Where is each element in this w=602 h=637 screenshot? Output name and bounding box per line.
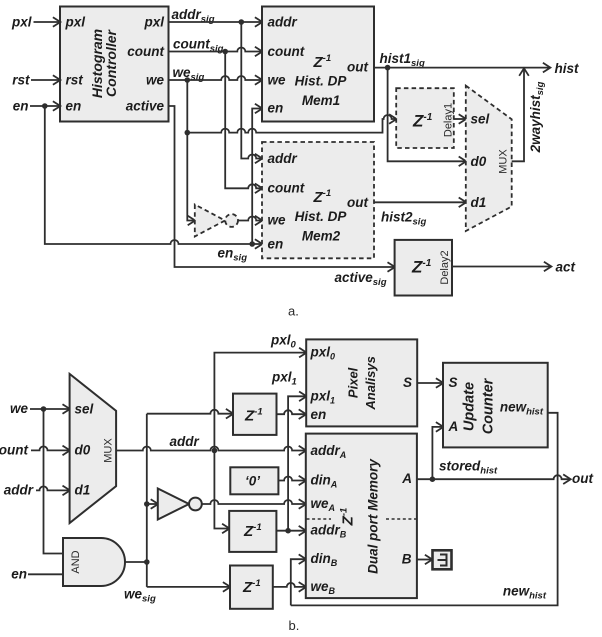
mux U6 MUX bbox=[70, 374, 117, 523]
wire we to Delay1 bbox=[187, 115, 396, 133]
svg-text:addr: addr bbox=[268, 151, 298, 166]
block Delay2 Z-1 bbox=[395, 240, 452, 296]
svg-text:activesig: activesig bbox=[334, 270, 386, 288]
svg-text:b.: b. bbox=[289, 618, 300, 633]
node stored_hist junction bbox=[430, 476, 436, 482]
wire new_hist feedback bbox=[291, 413, 558, 606]
wire en input bbox=[11, 566, 63, 581]
wire addr to middle Z-1 bbox=[214, 451, 229, 529]
svg-text:we: we bbox=[10, 401, 29, 416]
wire AND output we_sig bbox=[125, 561, 147, 563]
svg-text:d1: d1 bbox=[471, 195, 487, 210]
svg-text:Controller: Controller bbox=[103, 29, 119, 97]
wire inverter out to we_A bbox=[202, 500, 306, 504]
wire stored_hist to out bbox=[417, 459, 594, 487]
wire stored_hist to Update Counter A bbox=[432, 427, 443, 479]
svg-text:MUX: MUX bbox=[498, 149, 510, 174]
svg-text:en: en bbox=[268, 101, 284, 116]
wire hist1_sig to hist bbox=[374, 51, 579, 76]
svg-text:we: we bbox=[268, 73, 287, 88]
svg-text:‘0’: ‘0’ bbox=[245, 474, 260, 489]
terminator B port bbox=[417, 550, 452, 569]
svg-text:addr: addr bbox=[4, 483, 34, 498]
inverter U2 (dashed) bbox=[195, 205, 238, 237]
svg-text:out: out bbox=[347, 60, 368, 75]
wire middle Z-1 out to addr_B bbox=[276, 530, 305, 532]
wire lower Z-1 out to we_B bbox=[273, 583, 306, 587]
wire new_hist riser to din_B bbox=[291, 559, 306, 605]
block U1 Histogram Controller bbox=[60, 7, 169, 122]
svg-text:sel: sel bbox=[471, 112, 490, 127]
node count_sig junction bbox=[222, 49, 228, 55]
wire addr from MUX to addr_A bbox=[116, 434, 306, 451]
svg-text:active: active bbox=[126, 99, 165, 114]
svg-text:hist2sig: hist2sig bbox=[381, 210, 426, 228]
block U12 lower Z-1 bbox=[230, 566, 273, 609]
svg-text:pxl: pxl bbox=[143, 15, 164, 30]
wire Delay1 out to MUX sel bbox=[454, 118, 466, 120]
block U8 upper Z-1 bbox=[233, 394, 277, 435]
wire count branch to Mem2 count bbox=[225, 52, 262, 189]
svg-text:out: out bbox=[572, 471, 593, 486]
wire addr input bbox=[4, 483, 70, 498]
wire hist1 branch to MUX d0 bbox=[388, 68, 466, 162]
svg-text:Mem1: Mem1 bbox=[302, 93, 340, 108]
svg-text:Mem2: Mem2 bbox=[302, 229, 341, 244]
svg-text:en: en bbox=[11, 566, 27, 581]
svg-text:pxl: pxl bbox=[11, 15, 32, 30]
wire en_sig branch to Mem2 en bbox=[45, 106, 262, 244]
svg-text:addr: addr bbox=[170, 434, 200, 449]
svg-text:S: S bbox=[449, 375, 458, 390]
svg-text:Hist. DP: Hist. DP bbox=[295, 209, 348, 224]
block U3 Hist. DP Mem1 bbox=[262, 7, 374, 122]
svg-text:pxl1: pxl1 bbox=[271, 370, 297, 388]
node addr_sig junction bbox=[239, 19, 245, 25]
svg-text:A: A bbox=[401, 471, 412, 486]
wire '0' to din_A bbox=[278, 477, 305, 481]
svg-text:S: S bbox=[403, 375, 412, 390]
svg-text:we: we bbox=[268, 213, 287, 228]
node we delay junction bbox=[185, 130, 191, 136]
block U15 Update Counter bbox=[443, 363, 548, 448]
gate U7 AND bbox=[63, 538, 125, 586]
svg-text:out: out bbox=[347, 195, 368, 210]
node we junction bbox=[41, 406, 47, 412]
svg-text:Dual port Memory: Dual port Memory bbox=[366, 458, 381, 574]
wire we input bbox=[10, 401, 70, 416]
mux U5 MUX (dashed) bbox=[466, 86, 512, 231]
svg-text:d0: d0 bbox=[75, 443, 91, 458]
svg-text:rst: rst bbox=[12, 73, 30, 88]
svg-text:ensig: ensig bbox=[218, 246, 248, 264]
svg-text:we: we bbox=[146, 73, 165, 88]
block U11 middle Z-1 bbox=[229, 511, 276, 552]
svg-text:Update: Update bbox=[462, 382, 478, 431]
wire we branch to AND bbox=[44, 409, 64, 554]
wire count_sig bbox=[169, 37, 263, 55]
block U14 Dual port Memory bbox=[306, 434, 417, 598]
svg-text:rst: rst bbox=[66, 73, 84, 88]
svg-text:MUX: MUX bbox=[103, 438, 115, 463]
wire pxl input bbox=[11, 15, 60, 30]
svg-text:wesig: wesig bbox=[124, 587, 156, 605]
wire MUX out 2wayhist_sig bbox=[512, 69, 524, 162]
svg-text:en: en bbox=[13, 99, 29, 114]
wire hist2_sig to MUX d1 bbox=[374, 202, 466, 227]
wire inverter output to Mem2 we bbox=[238, 216, 262, 220]
DIAGRAM-A bbox=[11, 7, 579, 319]
svg-text:en: en bbox=[311, 407, 327, 422]
svg-text:Hist. DP: Hist. DP bbox=[295, 74, 348, 89]
block Delay1 Z-1 (dashed) bbox=[396, 88, 454, 148]
svg-text:Analisys: Analisys bbox=[363, 356, 378, 410]
node en junction bbox=[42, 103, 48, 109]
wire active to Delay2 bbox=[169, 106, 395, 288]
svg-text:newhist: newhist bbox=[503, 584, 547, 602]
svg-text:A: A bbox=[448, 419, 459, 434]
svg-text:en: en bbox=[66, 99, 82, 114]
svg-text:Delay1: Delay1 bbox=[443, 103, 455, 137]
svg-text:AND: AND bbox=[70, 550, 82, 573]
wire en input bbox=[13, 99, 60, 114]
svg-text:d0: d0 bbox=[471, 154, 487, 169]
wire count input bbox=[0, 443, 70, 458]
svg-text:storedhist: storedhist bbox=[439, 459, 498, 477]
wire rst input bbox=[12, 73, 60, 88]
wire we_sig vertical bbox=[146, 414, 148, 587]
node addr_B junction bbox=[285, 528, 291, 534]
node we_sig AND junction bbox=[144, 559, 150, 565]
svg-text:hist: hist bbox=[555, 61, 580, 76]
wire addr branch to Mem2 addr bbox=[241, 22, 262, 159]
wire we_sig bbox=[169, 65, 263, 83]
wire we branch to inverter bbox=[187, 80, 195, 221]
block U13 Pixel Analisys bbox=[306, 339, 417, 426]
wire Delay2 out to act bbox=[452, 260, 576, 275]
svg-text:pxl0: pxl0 bbox=[270, 333, 297, 351]
svg-text:Delay2: Delay2 bbox=[439, 250, 451, 284]
svg-text:en: en bbox=[268, 237, 284, 252]
wire to inverter bbox=[147, 503, 158, 505]
svg-text:count: count bbox=[0, 443, 28, 458]
wire we_sig to upper Z-1 bbox=[147, 410, 233, 414]
wire addr_sig bbox=[169, 7, 263, 25]
node we_sig junction bbox=[185, 77, 191, 83]
svg-text:sel: sel bbox=[75, 401, 94, 416]
node inverter input junction bbox=[144, 501, 150, 507]
wire en_sig up to Mem1 en bbox=[252, 109, 262, 245]
svg-text:2wayhistsig: 2wayhistsig bbox=[528, 81, 546, 153]
node addr junction bbox=[212, 448, 218, 454]
node en_sig junction bbox=[249, 241, 255, 247]
svg-text:a.: a. bbox=[288, 304, 299, 319]
svg-text:pxl: pxl bbox=[65, 15, 86, 30]
svg-text:Pixel: Pixel bbox=[346, 367, 361, 398]
svg-text:count: count bbox=[268, 44, 305, 59]
svg-text:count: count bbox=[268, 181, 305, 196]
inverter U10 bbox=[158, 489, 202, 520]
block U4 Hist. DP Mem2 (dashed) bbox=[262, 142, 374, 258]
svg-text:B: B bbox=[402, 552, 412, 567]
svg-text:Counter: Counter bbox=[481, 377, 497, 434]
wire we_sig to lower Z-1 bbox=[124, 587, 230, 605]
svg-text:act: act bbox=[556, 260, 576, 275]
svg-text:addr: addr bbox=[268, 15, 298, 30]
wire pxl0 to Pixel Analisys bbox=[214, 333, 306, 451]
svg-text:count: count bbox=[127, 44, 164, 59]
wire S to Update Counter bbox=[417, 382, 443, 384]
DIAGRAM-B bbox=[0, 333, 593, 634]
svg-text:d1: d1 bbox=[75, 483, 91, 498]
block U9 constant '0' bbox=[230, 467, 278, 494]
wire upper Z-1 out to en bbox=[277, 410, 306, 414]
wire pxl1 riser bbox=[271, 370, 306, 531]
node hist1 junction bbox=[385, 65, 391, 71]
